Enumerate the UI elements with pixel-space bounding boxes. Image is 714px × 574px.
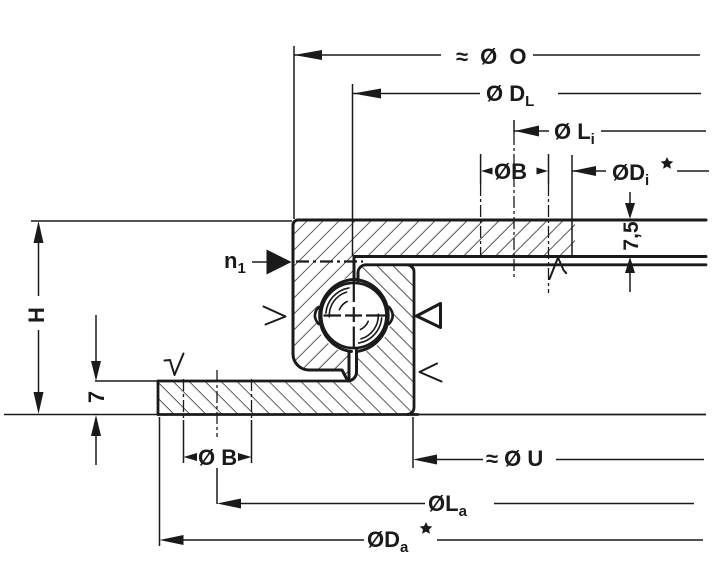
ring A right face above ball — [353, 258, 356, 281]
ring A (upper ring) hatched body and flange fill — [293, 220, 575, 379]
7 arrows — [91, 361, 101, 381]
> mark left of ring A — [264, 307, 286, 325]
left edge — [293, 225, 349, 379]
ring B outline — [158, 265, 706, 415]
white gap around ball — [316, 278, 392, 354]
ball grooves and ring faces at the ball — [320, 258, 389, 381]
svg-text:≈ Ø O: ≈ Ø O — [456, 44, 530, 69]
n1 axis dash-dot — [296, 260, 363, 262]
L_a dimension — [216, 468, 218, 504]
V mark on lower flange — [165, 354, 184, 376]
dash-dot extension lines — [184, 133, 549, 437]
n1 arrow — [267, 250, 292, 275]
flange bottom edge — [158, 413, 418, 416]
bottom long line right portion — [415, 414, 706, 416]
flange bottom edge — [354, 255, 706, 258]
L_a arrow — [217, 499, 241, 509]
groove contact crescents — [315, 307, 393, 324]
svg-text:≈ Ø U: ≈ Ø U — [486, 446, 543, 471]
< mark right of ring B — [420, 364, 442, 382]
B bottom dimension — [183, 420, 185, 463]
bottom long line left portion — [4, 414, 158, 416]
lambda mark below top flange — [550, 258, 567, 280]
ring B face above ball — [357, 273, 360, 281]
svg-text:Ø Li: Ø Li — [554, 119, 595, 148]
D_L dimension — [352, 84, 354, 256]
U dimension — [412, 417, 414, 468]
svg-text:n1: n1 — [224, 248, 246, 277]
svg-text:7: 7 — [84, 391, 109, 403]
H dimension — [31, 220, 292, 222]
ring A lip right edge below ball — [348, 351, 351, 378]
ball internal arcs — [326, 288, 382, 343]
D_i arrow — [572, 166, 596, 176]
stars — [420, 157, 674, 534]
svg-text:H: H — [24, 307, 49, 323]
7,5 dimension — [629, 192, 631, 205]
ball crosshair — [324, 281, 386, 349]
svg-text:Ø B: Ø B — [198, 445, 237, 470]
top-left corner of ring B body — [358, 265, 366, 279]
body right edge with rounded corners — [407, 265, 414, 415]
B top arrows — [481, 168, 493, 175]
svg-text:ØDa: ØDa — [367, 527, 409, 556]
svg-text:ØLa: ØLa — [428, 491, 468, 520]
svg-text:ØDi: ØDi — [612, 160, 649, 189]
7,5 arrows — [625, 203, 635, 219]
surface finish marks — [165, 258, 567, 382]
D_i dimension — [571, 155, 573, 256]
svg-text:7,5: 7,5 — [620, 221, 643, 251]
L_i arrow — [515, 126, 539, 137]
U arrow — [413, 455, 437, 465]
ring A outline — [293, 220, 706, 379]
top-left rounded corner — [293, 220, 298, 225]
L_i dimension — [513, 120, 515, 133]
star marker for D_a — [420, 522, 433, 534]
ball — [321, 283, 386, 348]
approx O dimension — [293, 46, 295, 219]
flange top edge — [158, 380, 348, 383]
ring B groove arc (right of ball) — [355, 280, 388, 352]
arrowheads — [34, 50, 636, 545]
ring B (lower ring) hatched body and flange fill — [158, 265, 414, 415]
B bottom arrows — [184, 453, 198, 461]
approx O arrow — [294, 50, 322, 60]
svg-text:Ø DL: Ø DL — [486, 81, 534, 110]
ring B face below ball with fillet — [348, 350, 357, 381]
D_L arrow — [353, 89, 381, 99]
top edge line extending right — [366, 263, 706, 266]
D_a arrow — [160, 535, 184, 545]
svg-text:ØB: ØB — [494, 159, 527, 184]
B top dimension — [480, 154, 482, 184]
7 dimension — [95, 315, 97, 362]
triangle mark right of ring B — [417, 304, 441, 328]
flange left edge — [157, 381, 160, 415]
star marker for D_i — [661, 157, 674, 169]
H arrows — [34, 221, 44, 243]
ring A groove arc (left of ball) — [320, 280, 353, 352]
n1 leader line — [252, 261, 267, 263]
top edge of part — [298, 219, 706, 222]
D_a dimension — [159, 417, 161, 546]
